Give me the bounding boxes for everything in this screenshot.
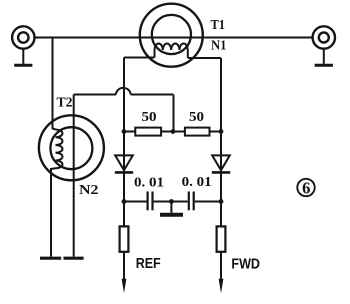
wire N1 right lead to FWD rail [188,57,221,59]
capacitor C2 0.01 [189,192,221,211]
connector J1 (left input) [12,26,34,48]
node: FWD rail / cap wire [219,199,224,204]
node: center cap junction [169,199,174,204]
resistor R2 50 [185,128,221,136]
diode D2 [212,155,230,172]
wire REF rail through D1 to cap row [123,132,125,202]
wire link: T2 top to 50-ohm midpoint, hop over REF rail [74,88,174,132]
wire REF rail upper [123,58,125,132]
resistor R1 50 [124,128,185,136]
arrow FWD output [219,279,224,293]
ground (J1) [14,49,32,65]
resistor R4 (FWD load) [217,226,226,280]
ground (J2) [315,49,333,65]
node: REF rail / R1 junction [122,129,127,134]
svg-text:N2: N2 [79,183,99,198]
transformer T1 core [140,4,203,67]
wire FWD rail upper [220,58,222,132]
winding N2 [56,130,63,169]
svg-text:FWD: FWD [231,256,260,273]
wire N1 left lead to REF rail [124,57,155,59]
wire main line J1 to J2 [35,37,313,39]
arrow REF output [122,279,127,293]
svg-text:T1: T1 [211,18,226,33]
svg-text:6: 6 [302,178,310,197]
node: R2 / FWD rail junction [219,129,224,134]
wire tap from main line to N2 winding [53,38,56,130]
diode D1 [115,155,133,172]
svg-text:N1: N1 [211,39,227,54]
wire N2 bottom lead to ground [51,168,56,256]
svg-text:50: 50 [142,110,157,125]
capacitor C1 0.01 [124,192,188,211]
wire REF rail to R3 [123,202,125,227]
svg-text:50: 50 [189,110,204,125]
resistor R3 (REF load) [120,226,129,280]
node: REF rail / cap wire [122,199,127,204]
wire FWD rail to R4 [220,202,222,227]
wire FWD rail through D2 to cap row [220,132,222,202]
ground (T2 through-line) [64,257,84,260]
wire T2 through-line from resistor midpoint [73,95,75,257]
svg-text:0. 01: 0. 01 [134,175,164,190]
transformer T2 core [39,115,104,180]
node: R1/R2 midpoint junction [171,129,176,134]
winding N1 [155,43,188,58]
circled 6 figure number [297,179,314,196]
svg-text:REF: REF [136,255,161,272]
ground (center) [160,202,183,215]
svg-text:T2: T2 [57,96,73,111]
svg-text:0. 01: 0. 01 [182,175,212,190]
connector J2 (right output) [313,26,335,48]
ground (N2) [40,257,61,260]
